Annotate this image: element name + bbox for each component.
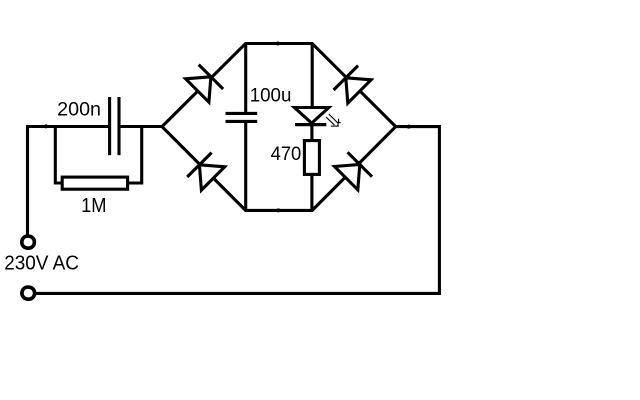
svg-text:470: 470 — [271, 144, 302, 165]
LED D5 triangle — [294, 108, 328, 124]
wire LED cathode to resistor 470 — [310, 125, 313, 141]
diode D1 (bridge top-left) — [186, 65, 224, 103]
diode D4 (bridge bottom-right) — [335, 152, 373, 190]
wire internal left vertical (top corner to 100u top plate) — [244, 44, 247, 113]
wire 1M loop right rise — [128, 127, 142, 184]
LED light-emission arrow upper — [329, 114, 341, 123]
svg-text:200n: 200n — [57, 99, 101, 120]
diode D2 (bridge bottom-left) — [187, 153, 225, 191]
resistor R2 470 (vertical box) — [304, 141, 319, 175]
junction dot bottom rail — [276, 208, 280, 212]
svg-text:230V AC: 230V AC — [4, 253, 79, 275]
svg-text:1M: 1M — [81, 195, 106, 217]
wire 1M loop left drop — [55, 127, 62, 184]
terminal AC top (circle) — [22, 236, 35, 248]
wire internal right vertical (top corner to LED anode) — [311, 44, 314, 109]
wire main horizontal to capacitor left plate — [26, 125, 108, 128]
diode D3 (bridge top-right) — [334, 66, 372, 104]
wire 470 resistor to bottom rail — [310, 174, 313, 210]
capacitor C1 200n (series X-cap) — [110, 97, 119, 155]
wire from capacitor right plate to bridge left vertex — [120, 125, 163, 128]
wire right vertex to right edge and down to bottom return — [36, 127, 439, 294]
terminal AC bottom (circle) — [22, 287, 35, 299]
LED D5 cathode bar — [295, 123, 326, 126]
junction dot left wire — [44, 124, 48, 128]
wire internal left vertical (100u bottom plate to bottom rail) — [244, 122, 247, 210]
capacitor C2 100u (smoothing) — [226, 113, 258, 121]
svg-text:100u: 100u — [250, 86, 292, 107]
bridge rectifier diamond outline — [162, 44, 396, 211]
resistor R1 1M (bleeder, horizontal box) — [62, 177, 127, 189]
junction dot top rail — [276, 42, 280, 46]
junction dot right wire — [407, 125, 411, 129]
wire left vertical from AC terminal up to main line — [26, 127, 29, 237]
LED light-emission arrow lower — [326, 117, 339, 126]
